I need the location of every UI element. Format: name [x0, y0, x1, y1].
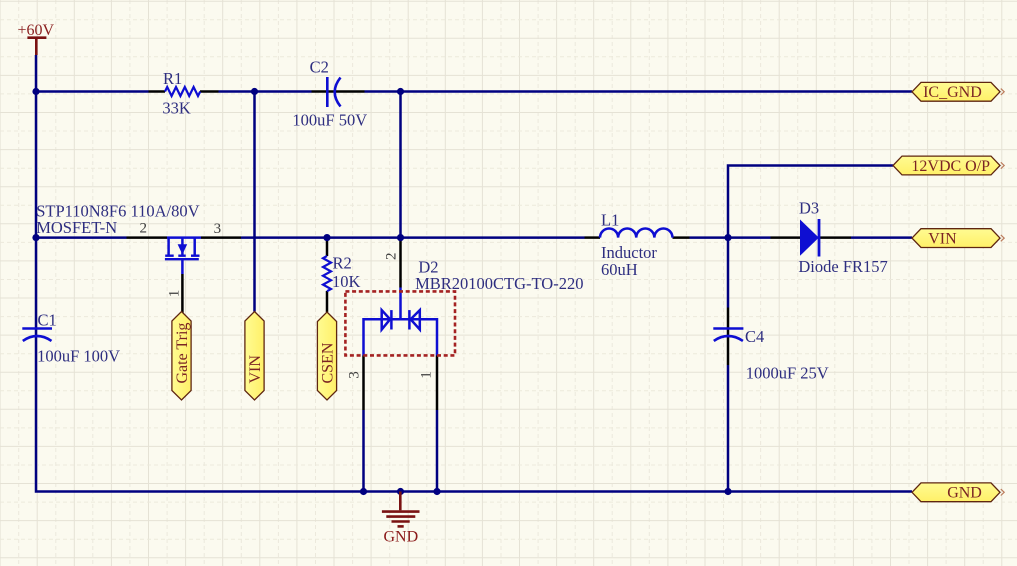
wire top rail C2 to IC_GND port	[365, 90, 913, 93]
pin R2 top	[326, 239, 329, 256]
svg-text:1: 1	[419, 371, 435, 379]
pin Q1 2	[127, 236, 168, 239]
junction bottom rail / D2 pin1	[433, 488, 440, 495]
ground GND symbol	[382, 492, 420, 527]
svg-text:GND: GND	[384, 529, 419, 546]
junction left bus / drain rail	[32, 234, 39, 241]
svg-text:Gate Trig: Gate Trig	[174, 323, 191, 384]
wire top rail left segment	[36, 90, 149, 93]
svg-text:10K: 10K	[332, 272, 361, 291]
svg-text:1000uF 25V: 1000uF 25V	[746, 363, 829, 382]
wire D3 to VIN port	[851, 236, 912, 239]
pin C2 through	[312, 90, 365, 93]
pin D2 2	[399, 239, 402, 288]
port VIN lower	[245, 312, 264, 401]
junction bottom rail / C4	[724, 488, 731, 495]
svg-text:VIN: VIN	[928, 230, 957, 247]
wire 12VDC O/P branch	[728, 166, 893, 308]
svg-text:33K: 33K	[162, 99, 191, 118]
wire vertical C2 junction to drain rail	[399, 92, 402, 238]
svg-text:12VDC O/P: 12VDC O/P	[911, 158, 990, 175]
svg-text:CSEN: CSEN	[319, 342, 336, 383]
svg-text:GND: GND	[947, 485, 982, 502]
pin D2 3	[362, 356, 365, 411]
svg-text:Diode FR157: Diode FR157	[798, 257, 887, 276]
svg-text:60uH: 60uH	[601, 260, 638, 279]
junction top rail / VIN drop	[251, 88, 258, 95]
port CSEN	[317, 312, 336, 400]
svg-text:1: 1	[167, 290, 183, 298]
pin Q1 3	[201, 236, 241, 239]
pin L1 left	[585, 236, 601, 239]
pin R1 left	[149, 90, 166, 93]
svg-text:100uF 50V: 100uF 50V	[292, 111, 367, 130]
power port +60V bar	[27, 38, 46, 55]
pin D3 anode	[771, 236, 801, 239]
resistor R1	[165, 87, 200, 96]
junction top rail / C2 right	[397, 88, 404, 95]
port 12VDC O/P	[893, 156, 1004, 175]
port VIN right	[912, 229, 1004, 248]
svg-text:IC_GND: IC_GND	[923, 84, 982, 101]
wire vertical to VIN lower port	[253, 92, 256, 312]
pin R1 right	[200, 90, 219, 93]
port IC_GND	[912, 82, 1004, 101]
wire drain rail MOSFET to L1	[241, 236, 585, 239]
svg-text:MOSFET-N: MOSFET-N	[36, 218, 117, 237]
svg-text:VIN: VIN	[247, 355, 264, 384]
transistor Q1 MOSFET-N	[165, 238, 201, 274]
svg-text:R2: R2	[333, 253, 352, 272]
junction drain rail / R2	[323, 234, 330, 241]
pin L1 right	[673, 236, 690, 239]
svg-text:L1: L1	[601, 210, 619, 229]
wire C4 to bottom rail	[727, 365, 730, 492]
diode D3	[800, 219, 819, 257]
inductor L1	[600, 229, 672, 238]
pin D2 1	[436, 356, 439, 411]
wire D2 pin3 to bottom rail	[362, 410, 365, 492]
resistor R2	[323, 256, 331, 291]
capacitor C1	[22, 329, 52, 341]
pin C4 through	[727, 308, 730, 366]
svg-text:2: 2	[383, 253, 399, 261]
port Gate Trig	[172, 312, 191, 401]
pin Q1 1 gate	[181, 274, 184, 313]
port GND right	[912, 483, 1004, 502]
junction left bus / top rail	[32, 88, 39, 95]
svg-text:2: 2	[140, 221, 148, 237]
wire L1 to D3	[690, 236, 771, 239]
svg-text:C2: C2	[310, 57, 329, 76]
pin R2 bottom	[326, 291, 329, 312]
svg-text:100uF 100V: 100uF 100V	[37, 347, 120, 366]
capacitor C4	[713, 329, 743, 341]
svg-text:R1: R1	[163, 69, 182, 88]
svg-text:MBR20100CTG-TO-220: MBR20100CTG-TO-220	[415, 274, 583, 293]
junction bottom rail / GND	[397, 488, 404, 495]
svg-text:3: 3	[347, 371, 363, 379]
wire top rail R1 to C2	[219, 90, 312, 93]
svg-text:D3: D3	[799, 199, 819, 218]
pin D3 cathode	[820, 236, 852, 239]
svg-text:+60V: +60V	[18, 22, 55, 39]
svg-text:Inductor: Inductor	[601, 243, 657, 262]
svg-text:3: 3	[214, 221, 222, 237]
wire left vertical bus and bottom GND rail	[36, 55, 912, 492]
diode D2 dual schottky	[364, 288, 438, 356]
svg-text:C1: C1	[38, 311, 57, 330]
wire D2 pin1 to bottom rail	[436, 410, 439, 492]
junction drain rail / output node	[724, 234, 731, 241]
junction bottom rail / D2 pin3	[360, 488, 367, 495]
capacitor C2	[327, 77, 340, 107]
wire drain rail from left bus	[36, 236, 127, 239]
D2 dashed highlight box	[345, 291, 455, 355]
junction drain rail / D2	[397, 234, 404, 241]
svg-text:C4: C4	[745, 327, 764, 346]
